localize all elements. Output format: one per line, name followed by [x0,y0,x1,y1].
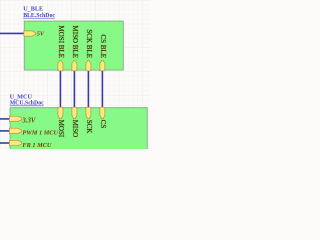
svg-text:FR 1 MCU: FR 1 MCU [22,142,51,149]
sheet symbol U_BLE [24,21,123,70]
svg-text:MOSI: MOSI [57,120,65,138]
sheet entry SCK BLE [86,60,91,71]
svg-text:MOSI BLE: MOSI BLE [57,26,65,58]
wire CS [101,70,103,108]
sheet entry FR 1 MCU [9,140,21,145]
sheet entry PWM 1 MCU [9,128,21,133]
svg-text:PWM 1 MCU: PWM 1 MCU [22,130,58,137]
wire SCK [87,70,89,108]
svg-text:MISO BLE: MISO BLE [71,26,79,58]
svg-text:SCK BLE: SCK BLE [85,29,93,58]
sheet entry MOSI BLE [58,60,63,71]
svg-text:3.3V: 3.3V [21,117,35,124]
svg-text:U_MCU: U_MCU [10,93,33,100]
svg-text:SCK: SCK [85,120,93,134]
sheet entry CS BLE [100,60,105,71]
wire MISO [73,70,75,108]
wire PWM 1 MCU [0,130,10,132]
sheet entry CS (MCU) [100,107,105,118]
wire 3.3V [0,118,10,120]
sheet entry SCK (MCU) [86,107,91,118]
svg-text:CS: CS [99,120,107,129]
svg-text:U_BLE: U_BLE [23,5,43,12]
wire FR 1 MCU [0,142,10,144]
sheet entry MOSI (MCU) [58,107,63,118]
svg-text:MCU.SchDoc: MCU.SchDoc [10,101,44,107]
wire MOSI [59,70,61,108]
sheet symbol U_MCU [10,108,147,153]
sheet entry 3.3V [9,116,21,121]
svg-text:CS BLE: CS BLE [99,34,107,58]
sheet entry MISO BLE [72,60,77,71]
background grid [0,0,150,149]
svg-text:5V: 5V [37,30,45,37]
svg-text:BLE.SchDoc: BLE.SchDoc [23,13,55,19]
sheet entry 5V [24,31,36,36]
wire 5V [0,32,24,34]
svg-text:MISO: MISO [71,120,79,138]
sheet entry MISO (MCU) [72,107,77,118]
